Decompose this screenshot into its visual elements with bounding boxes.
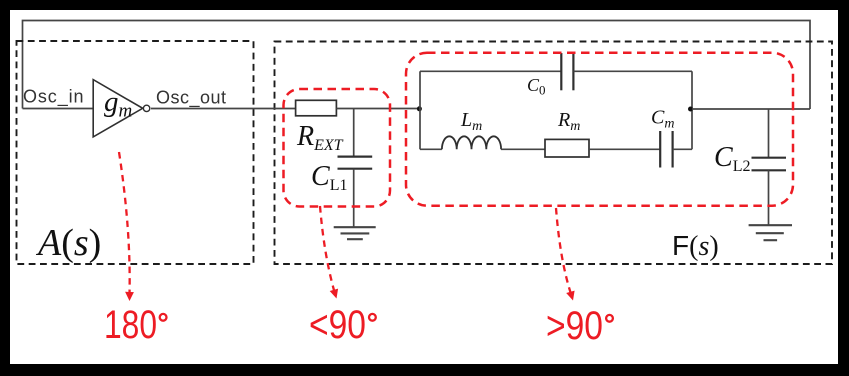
svg-text:<90: <90 bbox=[309, 303, 366, 347]
wire crystal left vertical bbox=[419, 71, 421, 149]
svg-text:180: 180 bbox=[104, 303, 157, 347]
node A junction dot bbox=[417, 106, 422, 111]
wire crystal to feedback bbox=[692, 108, 810, 110]
inductor L_m bbox=[442, 136, 501, 149]
capacitor C_m bbox=[659, 131, 661, 168]
resistor R_m bbox=[545, 139, 589, 157]
svg-text:Osc_out: Osc_out bbox=[156, 88, 227, 109]
svg-text:F(s): F(s) bbox=[672, 230, 719, 262]
wire R_EXT to crystal bbox=[336, 108, 419, 110]
wire crystal bottom branch right bbox=[673, 148, 692, 150]
red leader to less90 bbox=[320, 206, 335, 292]
ground G1 bbox=[334, 227, 376, 239]
wire crystal top branch left bbox=[420, 70, 561, 72]
red annotation box 1 (R_EXT + C_L1) bbox=[284, 89, 391, 207]
capacitor C_L1 bbox=[338, 156, 373, 158]
dashed box A(s) bbox=[17, 41, 254, 264]
wire crystal right vertical bbox=[691, 71, 693, 149]
wire input bbox=[23, 108, 94, 110]
resistor R_EXT bbox=[296, 100, 337, 116]
red annotation box 2 (crystal) bbox=[406, 53, 793, 206]
wire output bbox=[151, 108, 296, 110]
inverter bubble bbox=[143, 105, 149, 111]
wire C_L2 to ground bbox=[768, 170, 770, 225]
wire C_L1 to ground bbox=[353, 169, 355, 227]
wire C_L2 tap bbox=[768, 109, 770, 158]
wire C_L1 tap bbox=[353, 109, 355, 157]
red leader to 180 bbox=[119, 152, 130, 294]
wire R_m to C_m bbox=[589, 148, 660, 150]
node B junction dot bbox=[688, 107, 693, 112]
wire crystal bottom branch left bbox=[420, 148, 442, 150]
op-amp U1 triangle bbox=[93, 80, 143, 137]
svg-text:A(s): A(s) bbox=[35, 222, 101, 264]
capacitor C_0 bbox=[560, 53, 562, 90]
ground G2 bbox=[749, 225, 792, 240]
dashed box F(s) bbox=[275, 42, 833, 265]
wire crystal top branch right bbox=[573, 70, 692, 72]
wire L_m to R_m bbox=[501, 148, 545, 150]
svg-text:>90: >90 bbox=[546, 304, 603, 348]
svg-text:Osc_in: Osc_in bbox=[23, 87, 84, 108]
red leader to more90 bbox=[556, 208, 571, 294]
capacitor C_L2 bbox=[752, 157, 787, 159]
wire feedback loop top bbox=[23, 21, 811, 110]
